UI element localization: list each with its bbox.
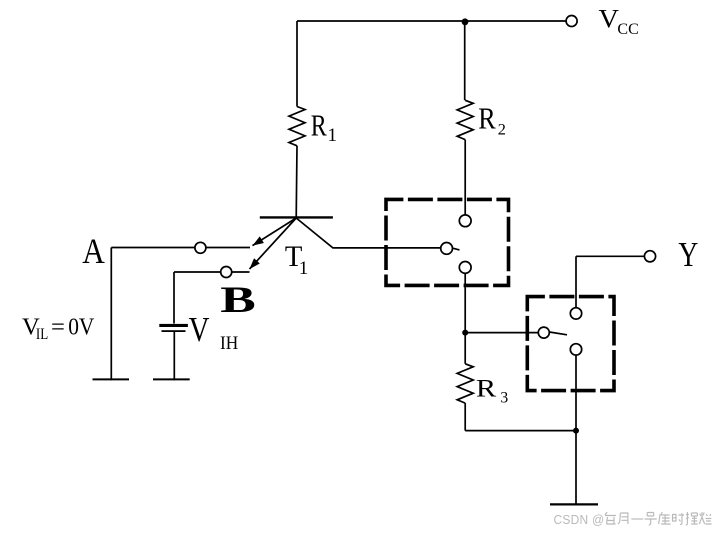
svg-text:IL: IL — [36, 326, 48, 344]
svg-text:1: 1 — [328, 125, 338, 146]
svg-text:A: A — [82, 232, 105, 271]
ground battery — [153, 378, 190, 380]
svg-text:CSDN @: CSDN @ — [554, 512, 605, 527]
wire S1 bottom to junction — [464, 273, 466, 364]
wire input B horizontal — [174, 271, 250, 273]
transistor T1 emitter 2 — [250, 218, 297, 269]
svg-text:CC: CC — [617, 21, 638, 38]
battery VIH plate positive — [159, 324, 188, 327]
switch S2 base contact — [538, 327, 549, 338]
svg-text:R: R — [476, 374, 496, 402]
wire R2 bottom lead — [464, 140, 466, 215]
dashed box switch S1 — [386, 199, 509, 285]
wire R3 bottom lead — [464, 403, 466, 431]
switch S1 lever — [453, 248, 460, 250]
transistor T1 emitter 1 — [253, 218, 297, 246]
node junction top rail — [462, 18, 469, 25]
svg-text:Y: Y — [678, 235, 698, 274]
node junction output ground — [573, 428, 579, 434]
svg-text:IH: IH — [220, 332, 238, 353]
switch S1 base contact — [441, 243, 453, 255]
resistor R3 — [457, 364, 473, 403]
wire R2 top lead — [464, 21, 466, 100]
ground output — [550, 503, 598, 505]
resistor R2 — [457, 100, 473, 139]
svg-text:=: = — [51, 314, 65, 341]
terminal Vcc circle — [566, 16, 577, 27]
svg-text:V: V — [599, 5, 620, 34]
watermark hanzi — [605, 512, 712, 525]
terminal A circle — [195, 242, 206, 253]
switch S2 lever — [549, 332, 567, 335]
battery VIH plate negative — [162, 330, 186, 332]
dashed box switch S2 — [527, 297, 614, 391]
svg-text:R: R — [478, 103, 496, 136]
switch S2 top contact — [570, 308, 581, 319]
switch S2 bottom contact — [570, 344, 581, 355]
switch S1 top contact — [459, 215, 471, 227]
wire battery bottom lead — [173, 332, 175, 380]
wire ground lead output — [575, 431, 577, 505]
terminal B circle — [221, 267, 232, 278]
wire bottom horizontal — [465, 430, 576, 432]
wire R1 bottom lead — [295, 146, 298, 219]
wire junction to S2 base — [465, 332, 538, 334]
svg-text:3: 3 — [500, 389, 508, 406]
switch S1 bottom contact — [459, 262, 471, 274]
transistor T1 collector lead — [296, 218, 441, 248]
svg-text:V: V — [189, 311, 210, 349]
svg-text:0V: 0V — [68, 312, 94, 340]
wire input B vertical — [173, 272, 175, 324]
svg-text:2: 2 — [498, 119, 506, 138]
wire output Y horizontal — [576, 255, 645, 257]
terminal Y circle — [644, 251, 655, 262]
node junction S1/R3/S2 — [462, 330, 468, 336]
wire input A horizontal — [111, 247, 250, 249]
svg-text:R: R — [311, 108, 328, 143]
transistor T1 base bar — [260, 216, 333, 218]
wire R1 top lead — [296, 21, 298, 107]
ground input A — [93, 378, 130, 380]
wire S2 bottom lead — [575, 355, 577, 431]
wire input A vertical — [110, 248, 112, 381]
svg-text:B: B — [220, 278, 256, 320]
wire top rail — [297, 20, 566, 22]
resistor R1 — [289, 107, 305, 146]
svg-text:1: 1 — [299, 258, 309, 279]
wire S2 top to Y corner — [575, 256, 577, 307]
